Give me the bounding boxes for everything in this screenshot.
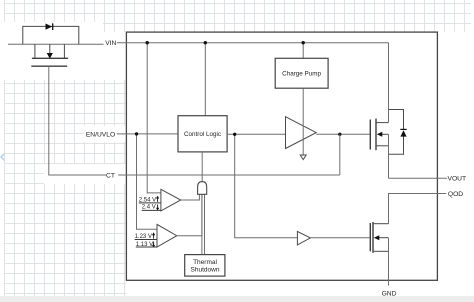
wire charge pump to driver <box>302 88 304 155</box>
svg-text:VIN: VIN <box>105 40 116 47</box>
svg-text:Control Logic: Control Logic <box>184 131 221 138</box>
white pad behind external FET <box>4 22 103 80</box>
wire Q2 drain vertical <box>388 43 390 123</box>
wire VIN external <box>8 43 104 45</box>
wire Q3 source to GND <box>388 238 390 286</box>
wire gate lead to CT <box>49 66 106 175</box>
node junction dot EN/UVLO <box>135 132 138 135</box>
op-amp comparator 1.23V <box>157 224 177 247</box>
wire body diode branch bottom <box>389 136 404 154</box>
svg-text:Shutdown: Shutdown <box>191 266 220 273</box>
arrow open charge pump feed <box>300 155 306 160</box>
svg-text:QOD: QOD <box>448 191 463 198</box>
svg-text:CT: CT <box>106 173 115 180</box>
transistor Q1 external PMOS <box>34 44 36 58</box>
wire VIN drop to comparator 1 <box>147 43 161 193</box>
block Control Logic <box>178 116 227 152</box>
gate U2 AND (pointing up) <box>198 182 207 195</box>
svg-text:GND: GND <box>382 291 397 298</box>
node junction dot VIN/logic <box>204 41 207 44</box>
transistor Q3 gate bar <box>369 223 371 251</box>
wire branch to QOD buffer <box>235 134 298 237</box>
node junction dot logic/driver <box>233 133 236 136</box>
wire control logic down to AND gate <box>201 152 203 182</box>
wire Q2 source stub <box>376 145 389 147</box>
wire Q2 bulk with arrow <box>382 133 389 135</box>
grid top strip <box>4 0 471 32</box>
wire Q2 drain stub <box>376 122 389 124</box>
diode D1 body diode <box>46 24 53 30</box>
wire Q3 drain stub <box>373 223 389 225</box>
wire control logic to driver <box>227 133 285 135</box>
bottom scrollbar strip <box>0 296 474 302</box>
white pad behind EN/UVLO label <box>84 126 126 142</box>
wire thermal shutdown lines <box>201 194 203 254</box>
node junction dot VIN/charge pump <box>302 41 305 44</box>
wire body diode branch top <box>389 110 404 131</box>
transistor Q2 channel bar <box>375 119 377 151</box>
wire VIN rail <box>117 42 389 44</box>
UI chevron left edge <box>1 154 5 161</box>
wire comp1 output to AND <box>181 194 200 200</box>
wire VOUT <box>389 177 447 179</box>
wire driver output <box>316 133 370 135</box>
white pad behind CT corner wire <box>44 164 126 184</box>
wire comp2 output to AND <box>177 194 202 235</box>
wire CT line to gate node <box>118 174 340 176</box>
wire Q3 bulk with arrow <box>379 237 389 239</box>
grid left column <box>4 0 126 296</box>
wire VIN drop to control logic <box>204 43 206 116</box>
op-amp gate driver triangle <box>286 117 317 149</box>
diode D2 body diode <box>400 130 406 136</box>
node junction dot VIN/comp1 <box>146 41 149 44</box>
block Charge Pump <box>275 58 328 88</box>
wire EN/UVLO to control logic <box>117 133 178 135</box>
wire buffer output to NMOS gate <box>310 237 370 239</box>
wire Q2 source vertical to VOUT <box>388 134 390 178</box>
node junction dot driver/CT <box>338 133 341 136</box>
svg-text:Charge Pump: Charge Pump <box>282 71 321 78</box>
wire QOD to NMOS drain <box>389 194 447 224</box>
wire EN/UVLO drop to comparator 2 <box>137 134 158 229</box>
svg-text:VOUT: VOUT <box>448 176 467 183</box>
wire Q3 source stub <box>373 250 389 252</box>
wire VIN drop to charge pump <box>302 43 304 59</box>
transistor Q3 channel bar <box>372 222 374 253</box>
op-amp QOD buffer triangle <box>297 231 310 245</box>
block Thermal Shutdown <box>185 255 225 277</box>
svg-text:2.4 V: 2.4 V <box>142 205 156 211</box>
svg-text:Thermal: Thermal <box>193 259 217 266</box>
wire body-diode loop <box>23 26 79 44</box>
op-amp comparator 2.54V <box>161 189 181 211</box>
wire gate node down to CT <box>339 134 341 175</box>
svg-text:EN/UVLO: EN/UVLO <box>86 131 115 138</box>
transistor Q2 gate bar <box>369 120 371 150</box>
